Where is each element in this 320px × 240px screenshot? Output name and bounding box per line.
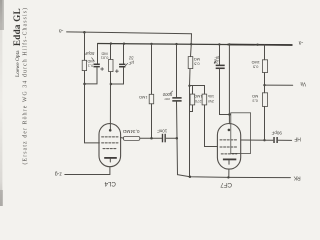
T2 anode pin: [228, 129, 231, 132]
wire: L2 vertical (T1 anode feed): [110, 44, 112, 60]
svg-text:270: 270: [194, 99, 201, 104]
resistor R7: [188, 57, 193, 69]
T1 grid 2 (dashed): [102, 142, 118, 144]
resistor R4: [149, 94, 154, 104]
wire: 90pF to HF terminal: [278, 139, 291, 141]
svg-text:0,5: 0,5: [194, 61, 199, 66]
wire: C1 bottom to L1 node: [85, 67, 98, 84]
wire: V5 from rail B down: [264, 45, 266, 60]
wire: V2 below C4 down and corner into bottom line: [177, 102, 178, 175]
svg-text:(Ersatz der Röhre WG 34 durch: (Ersatz der Röhre WG 34 durch Hilfs-Chas…: [22, 7, 29, 165]
node rail B x219.4: [218, 43, 220, 45]
node L2/C2 bus: [110, 83, 113, 86]
tube T1 envelope: [99, 124, 121, 167]
wire: HF line with 90pF: [241, 139, 273, 141]
svg-text:cm: cm: [164, 97, 170, 102]
tube T2 envelope: [217, 124, 240, 170]
wire: L2 below R2 to tube top pin: [109, 72, 111, 131]
node rail B x176.5: [175, 43, 177, 45]
svg-text:-a: -a: [59, 28, 64, 34]
T1 cathode bar: [104, 157, 117, 159]
svg-text:Va: Va: [300, 81, 306, 87]
node M1 divider tap: [188, 85, 190, 87]
T2 cathode bar: [223, 159, 236, 161]
capacitor C2 (electrolytic): [119, 64, 125, 68]
Hilfs-Chassis box: [231, 113, 251, 154]
svg-text:-a: -a: [299, 39, 304, 45]
svg-text:2W: 2W: [208, 99, 214, 104]
wire: T1 cathode down and left to z-g terminal: [65, 167, 110, 175]
resistor R3 (0.34M): [123, 137, 139, 141]
svg-text:Edda GL: Edda GL: [12, 8, 22, 46]
node rail B x229.4: [228, 43, 230, 45]
capacitor C6 90pF: [273, 137, 278, 143]
svg-text:0,1: 0,1: [88, 64, 93, 69]
wire: rail A (-a feed, top left): [67, 32, 192, 34]
wire: L1 vertical from rail A node down: [84, 32, 86, 60]
wire: C2 branch from rail B: [123, 44, 125, 64]
resistor R10: [262, 93, 267, 107]
wire: rail A corner drop into M1: [190, 34, 192, 44]
wire: V5 below R10 to HF line: [264, 106, 266, 140]
node V2/grid1 wire: [176, 137, 179, 140]
node rail B x151.5: [150, 43, 152, 45]
T1 grid 1 (dashed): [102, 136, 118, 138]
node bottom/M1: [189, 176, 192, 179]
svg-text:1MΩ: 1MΩ: [194, 94, 202, 99]
wire: V5 mid: [264, 73, 266, 93]
T1 cathode tick: [109, 159, 111, 162]
svg-text:32: 32: [128, 56, 133, 61]
wire: M1 vertical (rail A drop through R7,R5): [190, 44, 193, 57]
T2 grid 3 (dashed): [221, 153, 237, 155]
node L1/C1 bus: [83, 83, 86, 86]
svg-text:10k: 10k: [208, 94, 214, 99]
svg-text:CF7: CF7: [220, 181, 232, 188]
svg-text:z-g: z-g: [55, 171, 62, 177]
capacitor C3 10nF: [162, 134, 166, 143]
wire: rail B emphasized right segment: [228, 44, 292, 47]
C2 polarity plus: [115, 70, 118, 73]
wire: L1 below R1 down to grid corner: [85, 71, 100, 143]
wire: V2 from rail B down: [176, 44, 178, 97]
wire: R6 bottom lead to T2 grid: [205, 105, 218, 147]
svg-text:1MΩ: 1MΩ: [251, 60, 259, 65]
resistor R5: [190, 94, 195, 105]
title: Edda GL (rotated page header): [12, 7, 29, 165]
T1 grid 3 (dashed): [103, 148, 117, 150]
T2 grid 2 (dashed): [220, 146, 238, 148]
wire: V1 from rail B down: [151, 44, 153, 94]
wire: R3 to C3: [140, 137, 162, 139]
leader C2: [125, 63, 128, 66]
T1 anode pin: [109, 129, 112, 132]
capacitor C1 (electrolytic): [94, 64, 100, 68]
node rail B x191: [190, 43, 192, 45]
leader C4: [170, 91, 173, 94]
wire: R5 bottom jog to M1: [190, 105, 193, 112]
node V5 Va tap: [263, 84, 265, 86]
wire: C5 branch from rail B: [219, 44, 221, 64]
svg-text:50µF: 50µF: [84, 51, 94, 56]
T2 cathode tick: [228, 160, 230, 164]
node rail B x111: [110, 42, 112, 44]
T2 grid 1 (dashed): [220, 139, 238, 141]
node R3/V1: [150, 137, 153, 140]
resistor R2: [109, 59, 113, 71]
svg-text:CL4: CL4: [104, 180, 116, 187]
node rail B x257.6: [256, 44, 258, 46]
wire: divider top link to R5,R6: [190, 86, 205, 95]
svg-text:10nF: 10nF: [157, 129, 168, 134]
node bottom/T2 cathode: [227, 176, 229, 178]
C1 polarity plus: [101, 68, 104, 71]
wire: bottom line (V2 corner to RK): [177, 175, 290, 178]
node V5/HF line: [263, 139, 265, 141]
wire: Va stub: [265, 84, 293, 86]
svg-text:HF: HF: [294, 136, 301, 142]
wire: T2 anode feed from rail B: [228, 45, 230, 124]
svg-text:0,01: 0,01: [101, 55, 109, 60]
wire: C3 to V2 node: [166, 137, 177, 139]
svg-text:RK: RK: [293, 174, 301, 180]
svg-text:MΩ: MΩ: [252, 94, 258, 99]
wire: C1 branch from rail B left corner: [97, 44, 99, 64]
svg-text:Loewe Opta: Loewe Opta: [15, 50, 21, 77]
svg-text:0,5: 0,5: [253, 65, 258, 70]
svg-text:µF: µF: [128, 60, 133, 65]
wire: rail B (long -a rail): [98, 44, 292, 46]
node C5/anode line: [228, 113, 230, 115]
wire: C5 down and right to T2 anode line: [220, 69, 230, 114]
resistor R1: [82, 60, 86, 70]
capacitor C5: [216, 65, 225, 69]
capacitor C4: [172, 97, 181, 102]
wire: T2 cathode down to RK line: [228, 169, 230, 177]
node on rail A: [83, 31, 86, 34]
wire: M1 below R7: [189, 69, 192, 177]
wire: R5 top lead: [192, 86, 194, 95]
svg-text:90pF: 90pF: [271, 130, 282, 135]
resistor R9: [262, 60, 267, 73]
svg-text:MΩ: MΩ: [194, 57, 200, 62]
svg-text:20: 20: [213, 60, 219, 65]
svg-text:1MΩ: 1MΩ: [139, 95, 147, 100]
leader C5: [214, 61, 217, 64]
svg-text:0,3: 0,3: [252, 99, 257, 104]
resistor R6: [202, 94, 207, 105]
wire: T1 grid1 to R3: [120, 137, 123, 140]
wire: V1 below R4 to grid1 node: [151, 104, 153, 139]
wire: C2 bottom to L2 node: [111, 68, 124, 85]
svg-text:0,34MΩ: 0,34MΩ: [122, 129, 139, 134]
leader C1: [92, 58, 95, 62]
left page edge shadow: [0, 0, 2, 206]
node rail B x124: [123, 43, 125, 45]
